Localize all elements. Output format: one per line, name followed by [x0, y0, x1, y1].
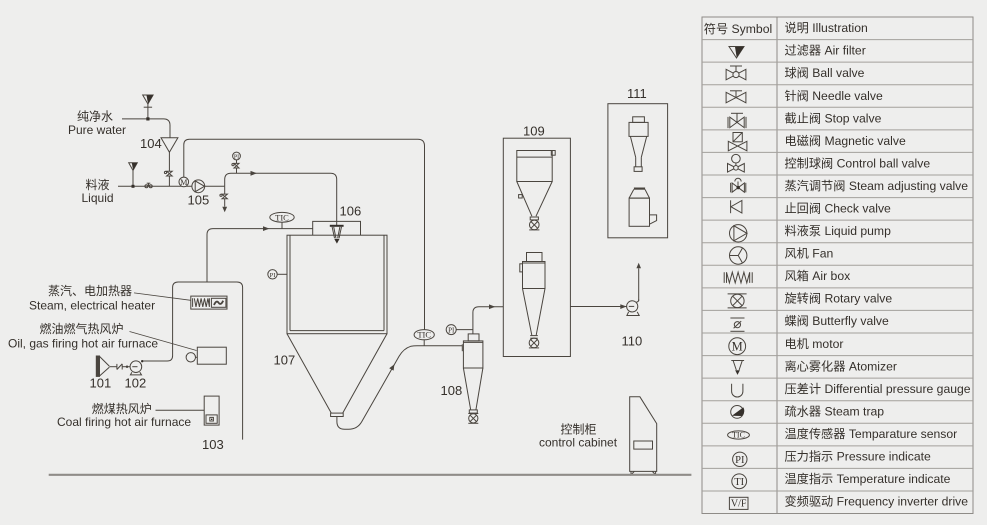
svg-text:压差计 Differential pressure gaug: 压差计 Differential pressure gauge: [785, 382, 971, 396]
legend magnetic valve symbol: [728, 133, 747, 151]
rotary valve under cyclone 108: [468, 414, 478, 424]
svg-text:风机 Fan: 风机 Fan: [785, 247, 834, 261]
svg-text:压力指示 Pressure indicate: 压力指示 Pressure indicate: [785, 449, 932, 464]
svg-text:PI: PI: [234, 154, 239, 160]
leader line to oil gas furnace: [130, 332, 197, 351]
check valve 101-102: [117, 364, 130, 370]
svg-text:107: 107: [274, 353, 296, 368]
svg-text:control cabinet: control cabinet: [539, 435, 618, 449]
svg-text:Oil, gas firing hot air furnac: Oil, gas firing hot air furnace: [8, 337, 158, 351]
heater enclosure duct: [143, 282, 243, 440]
legend air filter symbol: [729, 47, 744, 59]
TIC sensor at chamber inlet: [270, 212, 294, 228]
arrow into box 109: [489, 304, 495, 309]
feed pipe to atomizer: [225, 173, 337, 225]
chamber cone: [287, 334, 387, 417]
junction pure water filter: [146, 117, 149, 120]
svg-text:旋转阀 Rotary valve: 旋转阀 Rotary valve: [785, 291, 893, 306]
svg-text:符号 Symbol: 符号 Symbol: [704, 21, 772, 36]
pure water pipe: [122, 119, 170, 138]
svg-text:风箱 Air box: 风箱 Air box: [785, 268, 851, 283]
svg-text:104: 104: [140, 136, 162, 151]
liquid pump 105: [192, 180, 225, 193]
svg-text:109: 109: [523, 123, 545, 138]
legend motor symbol: [729, 338, 746, 355]
svg-text:TIC: TIC: [417, 330, 431, 340]
air filter 101: [96, 356, 117, 376]
hot air distributor 106: [313, 221, 361, 235]
pipe box 109 to fan 110: [570, 306, 626, 308]
svg-text:针阀 Needle valve: 针阀 Needle valve: [785, 88, 883, 103]
legend stop valve symbol: [728, 113, 746, 128]
svg-text:M: M: [180, 178, 187, 187]
liquid air filter: [129, 163, 138, 187]
electrical heater: [191, 296, 227, 309]
rotary valve under hopper: [529, 220, 539, 230]
PI gauge before cyclone 108: [446, 325, 473, 335]
PI gauge on chamber: [268, 270, 287, 279]
arrow on feed pipe: [251, 171, 258, 176]
rotary valve under 109 cyclone: [529, 338, 539, 348]
svg-text:控制球阀 Control ball valve: 控制球阀 Control ball valve: [785, 156, 931, 170]
svg-text:108: 108: [441, 383, 463, 398]
control cabinet: [630, 397, 657, 475]
cyclone 108: [462, 334, 483, 413]
svg-text:V/F: V/F: [731, 499, 747, 510]
signal line from motor to flush pipe: [184, 139, 425, 329]
leader line to electrical heater: [134, 293, 191, 300]
box 111: [608, 104, 668, 238]
svg-text:102: 102: [125, 376, 147, 391]
arrow on hot air duct: [263, 226, 270, 231]
svg-text:TIC: TIC: [732, 431, 745, 440]
table frame: [702, 17, 973, 514]
legend steam trap symbol: [731, 406, 745, 419]
legend air box symbol: [724, 272, 752, 283]
svg-text:温度指示 Temperature indicate: 温度指示 Temperature indicate: [785, 471, 951, 486]
legend frequency inverter drive symbol: [729, 497, 748, 509]
svg-text:疏水器 Steam trap: 疏水器 Steam trap: [785, 403, 885, 418]
chamber bottom outlet pipe to cyclone line: [337, 346, 462, 430]
oil gas furnace: [186, 347, 226, 364]
legend steam adjusting valve symbol: [731, 178, 746, 192]
PI gauge near pump: [232, 152, 241, 173]
legend control ball valve symbol: [728, 154, 745, 172]
coal furnace 103: [204, 396, 219, 425]
junction liquid filter: [132, 185, 135, 188]
pot device in 111: [629, 189, 657, 227]
atomizer in 106: [330, 225, 344, 244]
legend ball valve symbol: [726, 66, 746, 80]
svg-text:止回阀 Check valve: 止回阀 Check valve: [785, 202, 892, 216]
svg-text:Liquid: Liquid: [82, 191, 114, 205]
valve on 104 stem: [164, 171, 172, 176]
svg-text:蝶阀 Butterfly valve: 蝶阀 Butterfly valve: [785, 313, 890, 328]
TIC sensor before cyclone 108: [414, 330, 434, 346]
ground line: [49, 474, 692, 476]
svg-text:蒸汽调节阀 Steam adjusting valve: 蒸汽调节阀 Steam adjusting valve: [785, 178, 969, 193]
arrow on riser pipe: [389, 364, 394, 370]
svg-text:PI: PI: [735, 455, 745, 466]
legend liquid pump symbol: [730, 225, 747, 242]
liquid pipe: [118, 185, 192, 187]
svg-text:蒸汽、电加热器: 蒸汽、电加热器: [48, 283, 132, 298]
table column divider: [776, 17, 778, 514]
leader line to coal furnace: [156, 409, 205, 411]
svg-text:PI: PI: [270, 272, 276, 279]
arrow at fan 110 inlet: [620, 304, 626, 309]
ball valve on liquid line: [145, 183, 152, 188]
fan 110 exhaust pipe: [636, 263, 641, 301]
box 109: [503, 138, 570, 356]
svg-text:截止阀 Stop valve: 截止阀 Stop valve: [785, 111, 882, 125]
motor M of pump: [179, 177, 189, 187]
svg-text:PI: PI: [448, 326, 455, 334]
svg-text:TIC: TIC: [275, 212, 289, 222]
fan 102: [130, 360, 143, 375]
cyclone in 109: [520, 253, 545, 339]
svg-text:过滤器 Air filter: 过滤器 Air filter: [785, 44, 866, 58]
muffler in 111: [629, 117, 648, 172]
legend butterfly valve symbol: [730, 318, 744, 331]
svg-text:Pure water: Pure water: [68, 123, 126, 137]
svg-text:燃油燃气热风炉: 燃油燃气热风炉: [40, 321, 124, 336]
svg-text:TI: TI: [734, 477, 744, 488]
svg-text:料液: 料液: [86, 177, 110, 192]
legend rotary valve symbol: [728, 294, 747, 308]
svg-text:M: M: [732, 340, 743, 354]
legend check valve symbol: [731, 200, 742, 213]
bag filter hopper in 109: [517, 151, 555, 220]
svg-text:106: 106: [340, 204, 362, 219]
svg-text:纯净水: 纯净水: [77, 110, 113, 124]
pipe cyclone 108 to box 109: [473, 307, 503, 334]
LEGEND TABLE: [702, 17, 973, 514]
svg-text:球阀 Ball valve: 球阀 Ball valve: [785, 66, 865, 80]
svg-text:电磁阀 Magnetic valve: 电磁阀 Magnetic valve: [785, 133, 906, 148]
legend pressure indicate symbol: [733, 452, 747, 466]
legend needle valve symbol: [726, 91, 746, 103]
legend differential pressure gauge symbol: [732, 384, 743, 397]
hot air duct from heater to chamber: [207, 229, 313, 282]
legend temperature sensor symbol: [728, 431, 750, 440]
svg-text:变频驱动 Frequency inverter drive: 变频驱动 Frequency inverter drive: [785, 494, 969, 509]
svg-text:温度传感器 Temparature sensor: 温度传感器 Temparature sensor: [785, 426, 958, 441]
svg-text:说明 Illustration: 说明 Illustration: [785, 20, 868, 35]
drain branch below pump junction: [220, 186, 228, 212]
water funnel 104: [161, 138, 178, 153]
svg-text:料液泵 Liquid pump: 料液泵 Liquid pump: [785, 223, 892, 238]
svg-text:111: 111: [627, 86, 647, 101]
svg-text:105: 105: [188, 193, 210, 208]
svg-text:Steam, electrical heater: Steam, electrical heater: [29, 298, 155, 312]
pure water air filter: [143, 95, 153, 119]
svg-text:103: 103: [202, 437, 224, 452]
drying chamber 107: [287, 235, 387, 334]
104 outlet pipe: [168, 152, 170, 186]
svg-text:101: 101: [90, 376, 112, 391]
legend fan symbol: [730, 247, 747, 264]
legend atomizer symbol: [731, 361, 744, 375]
fan 110: [627, 300, 640, 316]
table row lines: [702, 40, 973, 491]
svg-text:电机 motor: 电机 motor: [785, 337, 844, 351]
legend temperature indicate symbol: [732, 474, 747, 489]
svg-text:Coal firing hot air furnace: Coal firing hot air furnace: [57, 415, 191, 429]
svg-text:离心雾化器 Atomizer: 离心雾化器 Atomizer: [785, 358, 897, 373]
svg-text:110: 110: [622, 334, 643, 349]
